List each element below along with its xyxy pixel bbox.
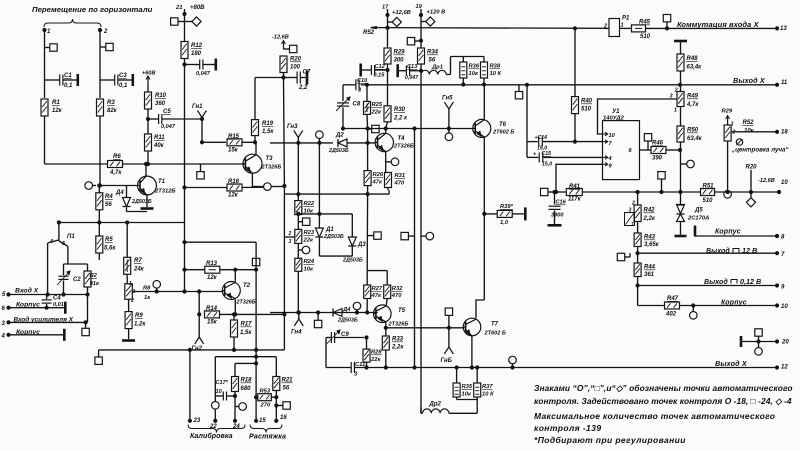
terminal 5 Vhod X <box>2 287 89 299</box>
svg-text:360: 360 <box>155 101 166 107</box>
resistor R32 470 <box>384 285 404 305</box>
svg-text:15,0: 15,0 <box>542 162 552 168</box>
test square right of R21 line <box>276 402 290 409</box>
test square left of line 19 <box>407 38 421 45</box>
svg-text:22к: 22к <box>371 110 382 116</box>
choke Dr1 <box>421 57 451 75</box>
svg-text:-12,6В: -12,6В <box>758 178 775 184</box>
test square on line 2 <box>100 43 113 50</box>
wire middle bus y242 <box>183 241 256 272</box>
svg-text:R15: R15 <box>228 134 240 140</box>
svg-text:Т7: Т7 <box>491 322 499 328</box>
resistor R20 100 <box>280 56 302 79</box>
svg-text:4: 4 <box>1 334 6 340</box>
line 19 down <box>419 15 422 48</box>
svg-text:2Д503Б: 2Д503Б <box>328 148 349 154</box>
resistor R29 300 <box>384 48 405 72</box>
test square left of R43 junction <box>617 253 630 261</box>
svg-text:180: 180 <box>191 51 202 57</box>
svg-text:4,7к: 4,7к <box>109 170 122 176</box>
svg-text:R25: R25 <box>372 102 383 108</box>
svg-text:402: 402 <box>665 312 677 318</box>
diode box bottom wire <box>319 255 352 257</box>
svg-text:2Т602 Б: 2Т602 Б <box>484 331 506 337</box>
T3 emitter wire to feedback bus <box>252 173 286 188</box>
svg-text:510: 510 <box>640 34 651 40</box>
svg-text:контроля -139: контроля -139 <box>534 423 601 433</box>
svg-text:Корпус: Корпус <box>721 300 747 307</box>
svg-text:Гн2: Гн2 <box>192 346 203 352</box>
svg-text:С16: С16 <box>556 200 567 206</box>
capacitors C14 C15 wires to op-amp <box>526 85 528 158</box>
svg-text:R24: R24 <box>304 259 315 265</box>
diode D1 2D503B <box>315 214 343 256</box>
svg-text:R38: R38 <box>490 64 501 70</box>
terminal +60V <box>142 71 156 86</box>
note text lines <box>534 383 793 393</box>
svg-text:10к: 10к <box>304 267 314 273</box>
diode D2 2D503B <box>328 133 376 155</box>
svg-text:24к: 24к <box>133 267 145 273</box>
svg-text:R28: R28 <box>371 350 382 356</box>
svg-text:22к: 22к <box>370 357 381 363</box>
resistor R17 1,5k <box>231 313 253 352</box>
svg-text:R36: R36 <box>469 64 480 70</box>
svg-text:0,1: 0,1 <box>119 83 128 89</box>
svg-text:C9: C9 <box>341 332 349 338</box>
T3 collector wire <box>255 142 257 155</box>
resistor R43 3,65k <box>634 233 660 263</box>
svg-text:63,4к: 63,4к <box>687 65 703 71</box>
svg-text:R10: R10 <box>155 93 167 99</box>
variable capacitor C9 <box>326 330 364 344</box>
svg-text:2С170А: 2С170А <box>687 216 709 222</box>
svg-text:56: 56 <box>283 386 290 392</box>
svg-text:С17*: С17* <box>216 380 229 386</box>
test circle on T3 emitter wire <box>264 183 272 191</box>
svg-text:R27: R27 <box>372 286 383 292</box>
test square above R46 <box>644 134 651 150</box>
resistor R2 91k <box>84 264 100 295</box>
svg-text:1: 1 <box>674 108 677 114</box>
svg-text:R20: R20 <box>290 57 302 63</box>
svg-text:R48: R48 <box>687 56 699 62</box>
svg-text:С10: С10 <box>357 78 368 84</box>
svg-text:R22: R22 <box>304 201 315 207</box>
svg-text:R13: R13 <box>206 261 218 267</box>
svg-text:R43: R43 <box>644 235 656 241</box>
test square right of R22 <box>298 218 310 225</box>
resistor R44 361 <box>634 263 656 306</box>
resistor R48 63,4k <box>677 54 702 85</box>
wire choke to R36 R38 tops <box>451 57 485 63</box>
svg-text:470: 470 <box>394 181 405 187</box>
svg-text:0,047: 0,047 <box>161 124 176 130</box>
test circle jack 24 <box>235 403 246 411</box>
svg-text:390: 390 <box>652 156 663 162</box>
ground under R9 <box>122 339 135 342</box>
test socket Gn3 <box>287 124 303 144</box>
test circle above T2 base wire <box>153 281 161 292</box>
R49 wiper wire to pin 10 <box>598 99 677 134</box>
feedback bus x284 down <box>283 78 286 350</box>
svg-text:2: 2 <box>732 130 736 136</box>
wire C2/R2 top <box>64 263 88 265</box>
svg-text:1: 1 <box>621 23 624 29</box>
svg-text:2Т326Б: 2Т326Б <box>393 144 414 150</box>
resistor R36 10k <box>460 62 480 86</box>
diamond at 19 <box>421 17 435 26</box>
R22/R23/R24 column top <box>297 143 299 201</box>
test circle right of T4 emitter <box>386 158 399 166</box>
svg-text:Растяжка: Растяжка <box>249 433 286 441</box>
svg-text:2,2: 2,2 <box>298 85 308 91</box>
svg-text:23: 23 <box>193 418 201 424</box>
resistor R7 24k <box>124 221 145 284</box>
test square right of R20 <box>284 45 297 52</box>
svg-text:10 К: 10 К <box>490 71 502 77</box>
svg-text:0,047: 0,047 <box>196 71 211 77</box>
svg-text:R37: R37 <box>482 384 493 390</box>
svg-text:Выход X: Выход X <box>733 76 766 85</box>
terminal 19 +120V <box>416 4 446 17</box>
svg-text:R26: R26 <box>373 172 384 178</box>
svg-text:2Д503Б: 2Д503Б <box>323 234 344 240</box>
test socket Gn5 <box>442 96 453 129</box>
wire C10 to C8 <box>342 85 344 101</box>
T5 base wire <box>270 312 378 314</box>
resistor R34 56 <box>418 48 439 72</box>
trimmer R29b arrow <box>722 109 733 126</box>
svg-text:21: 21 <box>175 5 182 11</box>
svg-text:Т4: Т4 <box>398 136 406 142</box>
terminal 21 +80V <box>175 5 205 22</box>
output bus junctions <box>413 366 514 369</box>
svg-text:R9: R9 <box>135 313 143 319</box>
svg-text:117к: 117к <box>568 197 582 203</box>
svg-text:R21: R21 <box>282 378 294 384</box>
diode network D1 D3 box <box>297 141 353 215</box>
trimmer body R52 10k <box>724 120 779 141</box>
svg-text:0,047: 0,047 <box>405 75 419 81</box>
resistor R14 15k <box>205 306 287 326</box>
svg-text:R51: R51 <box>703 184 715 190</box>
svg-text:2Т326Б: 2Т326Б <box>261 165 282 171</box>
svg-text:2Т602 Б: 2Т602 Б <box>492 130 514 136</box>
resistor R15 15k <box>227 134 256 154</box>
test circle below R47 wire <box>690 306 698 320</box>
svg-text:R19: R19 <box>262 121 274 127</box>
svg-text:1,2к: 1,2к <box>134 322 146 328</box>
ground bar above R48 <box>674 41 687 54</box>
svg-text:„центровка луча“: „центровка луча“ <box>731 147 789 154</box>
line 17 down <box>386 15 389 48</box>
resistor R18 680 <box>232 363 253 430</box>
svg-text:2: 2 <box>288 231 292 237</box>
transistor T5 2T326B <box>374 305 409 328</box>
svg-text:Д3: Д3 <box>357 242 366 248</box>
svg-text:12к: 12к <box>228 193 239 199</box>
capacitor C14 15,0 <box>527 135 603 152</box>
trimmer R8 1k <box>125 281 151 304</box>
svg-text:3: 3 <box>289 239 292 245</box>
resistor R35 10k <box>453 368 473 400</box>
svg-text:C5: C5 <box>163 109 171 115</box>
svg-text:Перемещение по горизонтали: Перемещение по горизонтали <box>32 5 153 14</box>
ground bar under D5 <box>675 235 687 238</box>
resistor R37 10K <box>474 368 494 400</box>
svg-text:R34: R34 <box>427 50 439 56</box>
svg-text:361: 361 <box>644 272 655 278</box>
resistor R46 390 <box>640 141 682 162</box>
resistor R28 22k <box>363 336 382 369</box>
svg-text:R40: R40 <box>581 99 593 105</box>
test square below op-amp <box>658 172 665 194</box>
main wire y192 <box>555 190 781 193</box>
svg-text:-12,6В: -12,6В <box>272 35 289 41</box>
svg-text:Д1: Д1 <box>325 227 334 233</box>
test circle right of R23 <box>298 246 310 254</box>
long vertical wire from R12 junction down to T3 base wire <box>184 65 186 292</box>
op-amp U1 140UD2 <box>603 109 640 180</box>
capacitor C15 15,0 <box>527 151 603 168</box>
svg-text:Д2: Д2 <box>335 133 344 139</box>
svg-text:Д5: Д5 <box>694 208 703 214</box>
svg-text:2,2к: 2,2к <box>643 216 656 222</box>
svg-text:C2: C2 <box>73 277 81 283</box>
svg-text:+12,6В: +12,6В <box>392 10 411 16</box>
terminal 4 Korpus <box>1 329 65 341</box>
svg-text:2,2 к: 2,2 к <box>393 116 408 122</box>
terminal 17 +12,6V <box>382 5 411 17</box>
svg-text:22к: 22к <box>303 238 314 244</box>
resistor R13 12k <box>183 261 258 281</box>
adjust symbol and tsentrovka lucha <box>731 139 789 154</box>
svg-text:Вход X: Вход X <box>15 287 39 295</box>
resistor R5 5,6k <box>96 223 117 261</box>
test diamond at +80V <box>185 17 202 26</box>
svg-text:2Т326Б: 2Т326Б <box>388 322 409 328</box>
svg-text:R53: R53 <box>260 389 271 395</box>
svg-text:18: 18 <box>781 130 788 136</box>
svg-text:Т6: Т6 <box>499 122 507 128</box>
T2 base wire <box>137 290 223 293</box>
test circle below terminal 20 wire <box>755 342 763 356</box>
wire T2 base junction down <box>198 290 201 316</box>
svg-text:12к: 12к <box>207 275 218 281</box>
svg-text:15к: 15к <box>207 320 218 326</box>
svg-text:12 В: 12 В <box>742 246 757 255</box>
wire R20 junction to R19 <box>255 77 284 79</box>
brace over inputs 1 and 2 <box>44 19 101 27</box>
svg-text:510: 510 <box>581 107 592 113</box>
test circle above output bus x512 <box>509 356 517 367</box>
svg-text:С4: С4 <box>53 296 61 302</box>
svg-text:C8: C8 <box>353 102 361 108</box>
test square below T5 base wire <box>314 311 321 328</box>
resistor R3 82k <box>97 99 118 186</box>
svg-text:56: 56 <box>105 202 112 208</box>
test square below T3 base bus <box>197 164 204 179</box>
svg-text:10к: 10к <box>469 71 479 77</box>
pin 9 wire <box>554 164 602 193</box>
terminal 11 Vyhod X <box>733 76 788 86</box>
svg-text:R5: R5 <box>105 237 113 243</box>
ground bar under T1 <box>127 209 154 212</box>
zener D5 2S170A <box>677 192 710 235</box>
transistor T6 2T602B <box>473 119 515 137</box>
svg-text:R47: R47 <box>667 296 679 302</box>
capacitor C17* 10 <box>215 380 236 401</box>
capacitor 0,047 at R12 junction <box>185 59 216 78</box>
test circle jack 22 <box>209 402 219 431</box>
test square left of R41 <box>541 188 555 195</box>
wire T1/T3 base bus R6 line <box>45 163 245 165</box>
R52 bus with left arrow <box>363 26 604 36</box>
svg-text:1,0: 1,0 <box>500 220 509 226</box>
svg-text:Выход X: Выход X <box>715 359 748 368</box>
resistor R21 56 <box>273 357 293 423</box>
T2 emitter wire <box>234 299 237 316</box>
svg-text:24: 24 <box>232 424 240 430</box>
wire D2 base line <box>270 142 333 144</box>
resistor R9 1,2k <box>125 299 146 339</box>
terminal 15 <box>255 418 267 424</box>
svg-text:Выход: Выход <box>704 278 728 286</box>
resistor R38 10K <box>481 62 502 86</box>
line 19 long vertical down to Dr2 <box>420 71 422 414</box>
svg-text:контроля. Задействовано точек: контроля. Задействовано точек контроля О… <box>534 396 792 406</box>
capacitor C16 3900 <box>549 190 567 224</box>
svg-text:2,2к: 2,2к <box>391 345 404 351</box>
svg-text:Гн1: Гн1 <box>192 104 203 110</box>
svg-text:Р1: Р1 <box>622 16 630 22</box>
relay P1 <box>603 16 632 37</box>
svg-text:R41: R41 <box>569 184 581 190</box>
svg-text:Гн4: Гн4 <box>291 330 302 336</box>
resistor R26 47k <box>364 129 384 195</box>
resistor R11 40k <box>145 119 166 166</box>
terminal 6 Korpus <box>2 302 66 314</box>
svg-text:10 К: 10 К <box>482 392 494 398</box>
svg-text:Гн3: Гн3 <box>287 124 298 130</box>
svg-text:3900: 3900 <box>551 213 564 219</box>
capacitor C1 0,1 <box>45 73 78 89</box>
svg-text:C12: C12 <box>375 64 386 70</box>
svg-text:22: 22 <box>209 424 217 430</box>
transistor T2 2T326B <box>222 282 255 306</box>
test circle above D1 line <box>316 131 324 139</box>
T5 emitter junction <box>384 322 387 329</box>
svg-text:С15: С15 <box>542 151 552 157</box>
svg-text:2Д503Б: 2Д503Б <box>342 258 363 264</box>
wire Gn1 junction to R15 <box>202 141 226 143</box>
svg-text:2Д503Б: 2Д503Б <box>131 199 152 205</box>
svg-text:10: 10 <box>609 133 616 139</box>
svg-text:Др2: Др2 <box>429 402 442 408</box>
switch P1 contacts 4-5 <box>48 221 76 295</box>
transistor T3 2T326B <box>243 154 281 173</box>
T4 collector wire <box>384 127 387 133</box>
terminal 10 Korpus <box>721 300 788 311</box>
test socket Gn2 <box>192 314 204 352</box>
svg-text:10: 10 <box>781 304 788 310</box>
svg-text:R52: R52 <box>743 120 755 126</box>
svg-text:R12: R12 <box>191 43 203 49</box>
bottom calibration wire y350 <box>99 348 285 351</box>
svg-text:R16: R16 <box>228 179 240 185</box>
resistor R47 402 <box>638 296 779 318</box>
R20b label and diamond <box>746 165 758 207</box>
chassis bar Korpus 8 <box>695 226 785 241</box>
svg-text:10: 10 <box>216 389 223 395</box>
resistor R39* 1,0 <box>484 204 525 226</box>
svg-text:13: 13 <box>780 26 787 32</box>
diode D4b 2D503B <box>333 307 358 324</box>
svg-text:2: 2 <box>130 298 134 304</box>
terminal 3 Vhod usilitelya X <box>2 316 88 328</box>
capacitor C4 0,01 <box>42 295 64 310</box>
svg-text:R30: R30 <box>394 107 406 113</box>
svg-text:0,12 В: 0,12 В <box>740 277 761 286</box>
capacitor C10 3 <box>343 78 368 94</box>
wire 21 to R12 <box>184 22 186 42</box>
svg-text:R18: R18 <box>241 378 253 384</box>
brace Kalibrovka <box>188 425 245 441</box>
brace Rastyazhka <box>249 425 286 441</box>
transistor T4 2T326B <box>375 133 414 151</box>
resistor R16 12k <box>183 179 264 199</box>
test circle below Gn5 <box>445 129 453 141</box>
svg-text:С13: С13 <box>407 64 418 70</box>
ground bar under C16 <box>548 224 562 227</box>
T7 collector jog <box>476 300 484 318</box>
svg-text:R31: R31 <box>395 173 406 179</box>
svg-text:R8: R8 <box>143 286 151 292</box>
resistor R33 2,2k <box>382 328 404 369</box>
svg-text:R52: R52 <box>363 30 375 36</box>
svg-text:56: 56 <box>429 58 436 64</box>
svg-text:C1: C1 <box>64 73 72 79</box>
svg-text:1,5к: 1,5к <box>240 330 252 336</box>
T1 collector wire <box>144 162 147 176</box>
svg-text:C7: C7 <box>303 70 311 76</box>
svg-text:Коммутация входа X: Коммутация входа X <box>677 20 760 29</box>
resistor R22 10k <box>295 201 315 230</box>
svg-text:91к: 91к <box>90 281 100 287</box>
svg-text:R33: R33 <box>392 337 404 343</box>
test square above T7 base wire <box>445 308 452 328</box>
svg-text:R2: R2 <box>90 273 98 279</box>
svg-text:2Т312Б: 2Т312Б <box>154 189 176 195</box>
test square left of x414 <box>401 232 415 239</box>
svg-text:R17: R17 <box>241 322 253 328</box>
long vertical bus x414 <box>413 127 416 368</box>
svg-text:1,5к: 1,5к <box>262 129 274 135</box>
variable capacitor C2 <box>57 264 81 295</box>
capacitor C5 0,047 <box>148 109 204 130</box>
svg-text:Д4: Д4 <box>342 307 351 313</box>
svg-text:20: 20 <box>781 340 789 346</box>
test circle right of line 19 <box>421 232 434 240</box>
svg-text:C3: C3 <box>119 73 127 79</box>
test square above R45 wire <box>663 15 670 29</box>
svg-text:У1: У1 <box>612 109 620 115</box>
resistor R12 180 <box>181 42 203 59</box>
svg-text:R45: R45 <box>639 20 651 26</box>
calibration top wire <box>215 356 276 358</box>
svg-text:1: 1 <box>631 222 634 228</box>
